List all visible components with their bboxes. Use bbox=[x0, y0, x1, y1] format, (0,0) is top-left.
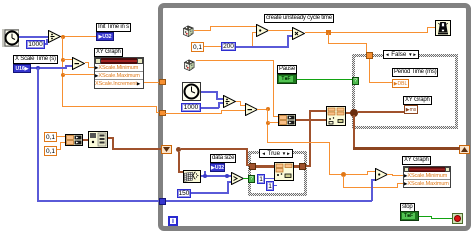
wire blue 150 to T5 lower input bbox=[191, 192, 228, 194]
property node P2 label bbox=[402, 156, 431, 165]
replace array subset node bbox=[274, 162, 294, 181]
wire blue riser to U32 bbox=[204, 171, 206, 176]
constant 200 bbox=[221, 42, 236, 51]
Pause boolean terminal bbox=[277, 74, 297, 84]
constant 0,1 A bbox=[44, 132, 57, 142]
node junction m2 out bbox=[326, 30, 331, 35]
wire brown N4 out to left shift register bbox=[108, 137, 114, 139]
tunnel brown left bbox=[249, 163, 256, 170]
wire blue 1b to node bbox=[274, 185, 277, 186]
inner case structure True frame bbox=[248, 151, 307, 196]
wire brown inner-case out up to N2 top input bbox=[306, 165, 311, 167]
wire orange subtract1 out to P1 XScale.Minimum bbox=[85, 62, 89, 63]
node junction blue N5 out bbox=[203, 174, 207, 178]
label data size bbox=[210, 154, 236, 163]
node junction x62 y59 bbox=[61, 58, 65, 62]
local variable XY Graph bbox=[404, 105, 418, 114]
constant 1000 #2 bbox=[181, 103, 201, 112]
while loop frame bbox=[158, 3, 471, 231]
bundle node N4 bbox=[88, 131, 108, 148]
wire blue clock2 to divide2 bbox=[201, 91, 217, 93]
wire orange 0,1 A to N3 bbox=[56, 136, 65, 137]
wire orange to subtract1 top input bbox=[63, 59, 72, 60]
wire blue long bottom inside loop bbox=[166, 200, 372, 202]
case structure False frame bbox=[352, 54, 458, 129]
property node P1 label bbox=[94, 48, 123, 57]
constant 1000 #1 bbox=[26, 40, 45, 49]
stop boolean terminal bbox=[400, 211, 419, 221]
wire orange dice2 down to N1 row1 bbox=[196, 60, 274, 61]
wire orange 0,1 to m1 lower input bbox=[204, 46, 253, 47]
wire orange T6 out to P2 XScale.Minimum bbox=[387, 174, 393, 175]
build array node N3 bbox=[65, 134, 83, 146]
wire orange vertical x62 bbox=[62, 37, 63, 107]
wire blue 1000#2 to divide2 bbox=[201, 107, 219, 109]
wire orange subtract2 out bbox=[257, 109, 268, 110]
wire blue U16 to subtract1 bbox=[31, 67, 66, 69]
wire orange junction down to case tunnel bbox=[328, 33, 329, 44]
Tick Count ms clock icon 1 bbox=[2, 29, 19, 47]
multiply node m1 bbox=[256, 24, 269, 37]
node junction N1 row2 bbox=[266, 121, 270, 125]
tunnel orange on case top bbox=[366, 52, 373, 59]
wire brown to XY Graph local variable bbox=[358, 111, 404, 113]
wire blue 200 to m2 lower input bbox=[236, 46, 289, 48]
property node P2 XY Graph bbox=[403, 166, 451, 188]
wire blue N5 out to T5 bbox=[201, 175, 231, 177]
loop iteration terminal i bbox=[168, 216, 178, 226]
wire orange vertical x267 bbox=[267, 109, 268, 143]
array size node N5 bbox=[183, 170, 201, 183]
tunnel A orange bbox=[159, 79, 166, 85]
wire green T5 out to ? tunnel bbox=[243, 178, 248, 179]
constant 0,1 B bbox=[44, 146, 57, 156]
node junction divide1 out bbox=[61, 35, 65, 39]
indicator DBL Period Time bbox=[392, 79, 409, 88]
node junction orange x343 y175 bbox=[341, 172, 346, 177]
control terminal U16 bbox=[13, 64, 31, 73]
tunnel blue bottom-left bbox=[159, 198, 166, 205]
wire orange divide2 out to subtract2 bbox=[236, 101, 241, 102]
indicator terminal U32 Init Time bbox=[96, 32, 114, 41]
tunnel green selector bbox=[352, 77, 359, 85]
property node P1 XY Graph bbox=[94, 57, 144, 89]
tunnel green ? selector bbox=[248, 175, 255, 183]
dice icon 1 bbox=[181, 24, 195, 38]
wire brown junction to inner case left tunnel bbox=[181, 148, 247, 150]
wire orange m2 out to metronome bbox=[305, 32, 428, 33]
multiply node m2 bbox=[292, 27, 305, 40]
wire orange P1 XScale.Increment to tunnel A bbox=[144, 82, 160, 83]
label X Scale Time (s) bbox=[13, 55, 58, 64]
wire orange corner to tunnel B bbox=[62, 106, 157, 107]
wire brown junction down to array size node bbox=[178, 152, 180, 172]
stop label bbox=[400, 203, 415, 212]
node junction blue x38 bbox=[36, 66, 40, 70]
label Period Time (ms) bbox=[392, 68, 438, 77]
label Init Time in s bbox=[96, 23, 131, 32]
multiply node T6 bbox=[375, 168, 388, 181]
greater-than node T5 bbox=[231, 172, 244, 185]
wire blue long down-left bbox=[37, 68, 39, 201]
left shift register bbox=[161, 145, 172, 154]
wire brown N2 out to case tunnel bbox=[346, 112, 356, 114]
node junction brown y149 bbox=[176, 147, 181, 152]
wire brown N3 to N4 bbox=[83, 139, 88, 141]
tunnel junction dark brown bbox=[350, 109, 358, 117]
wire orange junction down to P2 XScale.Maximum bbox=[343, 176, 344, 188]
constant 150 bbox=[177, 189, 191, 198]
case selector False bbox=[383, 50, 419, 59]
wire orange dice1 to m1 bbox=[194, 30, 211, 31]
subtract node 1 bbox=[72, 57, 85, 70]
wire orange m1 out to m2 bbox=[268, 30, 292, 31]
divide node 1 bbox=[48, 30, 61, 43]
tunnel brown right bbox=[299, 163, 306, 170]
clock icon 2 bbox=[182, 82, 201, 101]
wire blue 1000 to divide1 bbox=[45, 43, 48, 45]
loop condition terminal bbox=[452, 213, 463, 224]
subtract node 2 bbox=[245, 103, 258, 116]
bundle node N2 bbox=[326, 106, 346, 126]
wire orange down to Period indicator bbox=[369, 59, 370, 83]
right shift register bbox=[459, 145, 470, 154]
constant 1 b bbox=[266, 181, 274, 191]
wire blue clock1 to divide1 bbox=[19, 36, 48, 38]
divide node 2 bbox=[223, 95, 236, 108]
wire brown N1 out to N2 lower input bbox=[296, 119, 326, 121]
constant 1 a bbox=[257, 174, 265, 184]
wire green stop to loop condition bbox=[419, 216, 432, 217]
wire orange long y142 bbox=[267, 142, 330, 143]
indicator U32 data size bbox=[210, 163, 225, 172]
wire brown across inner case bbox=[256, 165, 299, 168]
wire brown down and right to right shift register bbox=[353, 115, 355, 149]
tunnel B orange bbox=[159, 110, 166, 116]
wire orange 0,1 B to N3 bbox=[56, 149, 61, 150]
node junction x62 y74 bbox=[61, 73, 65, 77]
wire orange divide1 out to Init Time indicator bbox=[60, 36, 96, 37]
wire green pause to case tunnel bbox=[297, 79, 353, 80]
wire blue 1a to node bbox=[265, 178, 274, 179]
constant 0,1 top bbox=[191, 42, 204, 52]
label create unsteady cycle time bbox=[264, 14, 334, 23]
build array node N1 bbox=[278, 114, 296, 126]
wire orange tunnel B to subtract2 lower input bbox=[165, 113, 222, 114]
wire orange junction to T6 top input bbox=[346, 174, 368, 175]
node junction blue x227 bbox=[225, 174, 229, 178]
label XY Graph local bbox=[403, 96, 432, 105]
wait until next ms multiple metronome icon bbox=[435, 20, 451, 36]
node junction subtract2 out bbox=[266, 107, 270, 111]
wire orange to P1 XScale.Maximum bbox=[63, 74, 94, 75]
case selector True bbox=[259, 149, 293, 158]
dice icon 2 bbox=[182, 58, 196, 72]
Pause label bbox=[277, 65, 297, 74]
